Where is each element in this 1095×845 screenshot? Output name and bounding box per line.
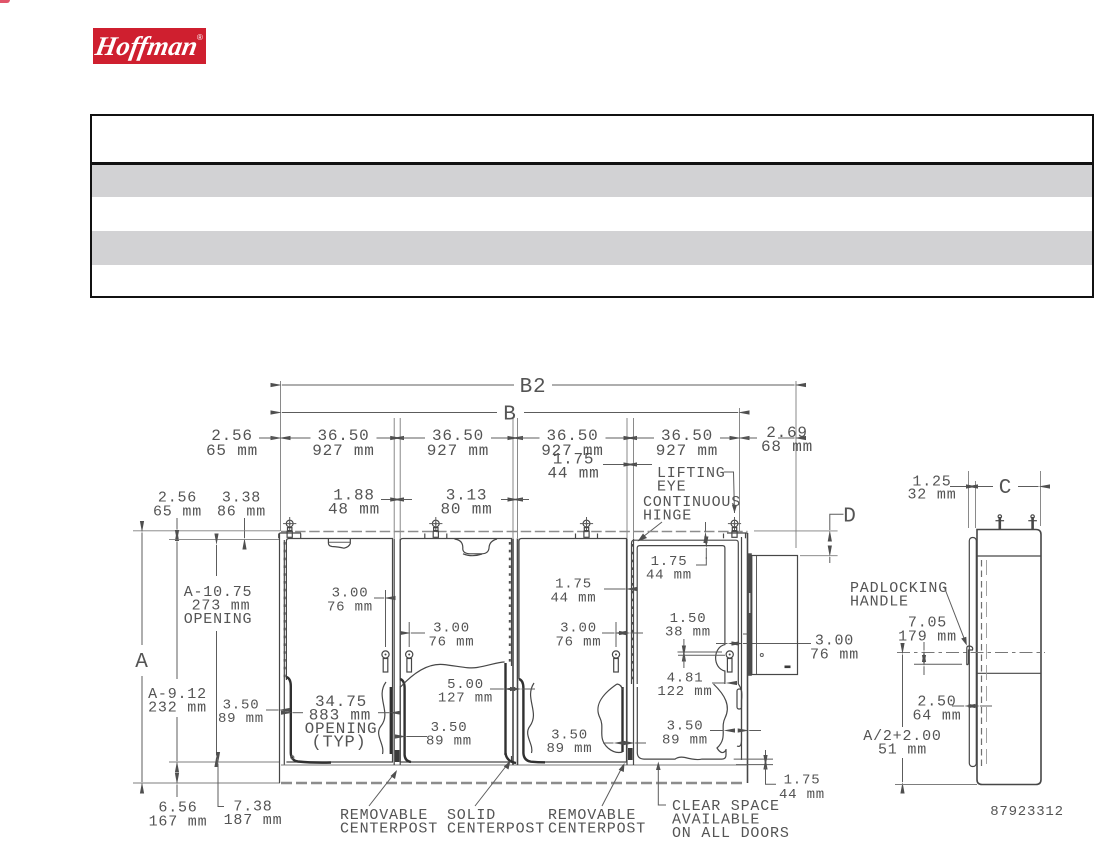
svg-text:44 mm: 44 mm	[550, 591, 596, 607]
door 2 horizontal break (wavy)	[401, 662, 505, 687]
svg-text:232 mm: 232 mm	[148, 700, 207, 717]
door 1 opening break right (wavy)	[379, 682, 386, 754]
door 3 opening break left	[519, 679, 545, 762]
dimension A (overall height)	[141, 546, 143, 645]
door 3 outline	[519, 539, 627, 763]
removable centerpost 1	[393, 539, 395, 766]
svg-text:A: A	[135, 651, 148, 674]
svg-text:(TYP): (TYP)	[311, 734, 366, 753]
door 2 outline	[400, 539, 511, 763]
svg-text:OPENING: OPENING	[184, 611, 253, 628]
enclosure left edge	[279, 533, 281, 783]
svg-text:87923312: 87923312	[990, 804, 1064, 820]
svg-text:CENTERPOST: CENTERPOST	[548, 821, 646, 838]
dimension 1.75 / 44 mm (bottom right)	[734, 758, 773, 760]
door 4 break (wavy blob)	[714, 684, 728, 753]
door handles (4)	[382, 651, 389, 672]
svg-text:D: D	[843, 506, 856, 529]
dimension B2	[282, 384, 514, 386]
page corner mark	[0, 0, 10, 3]
side view hidden hinge line	[981, 560, 983, 768]
svg-text:927 mm: 927 mm	[656, 442, 718, 460]
door 4 opening bottom line with break	[637, 687, 726, 760]
svg-text:76 mm: 76 mm	[428, 635, 474, 651]
enclosure right edge	[747, 533, 749, 783]
svg-text:HINGE: HINGE	[643, 508, 692, 525]
enclosure top edge (dashed)	[281, 531, 748, 533]
door 3 opening break right (wavy blob)	[598, 684, 617, 748]
svg-text:167 mm: 167 mm	[149, 814, 208, 831]
svg-text:68 mm: 68 mm	[761, 438, 813, 456]
svg-text:127 mm: 127 mm	[438, 691, 493, 707]
side view extension lines	[968, 471, 970, 528]
door 1 opening break left	[286, 677, 331, 763]
extension lines from top dimension lines	[280, 381, 282, 531]
lifting eyes (4)	[279, 517, 301, 538]
door 4 outline	[632, 540, 739, 684]
svg-text:48 mm: 48 mm	[328, 501, 380, 519]
spec table	[90, 114, 1094, 298]
svg-text:76 mm: 76 mm	[810, 647, 859, 664]
svg-text:CENTERPOST: CENTERPOST	[447, 821, 545, 838]
svg-text:76 mm: 76 mm	[555, 635, 601, 651]
svg-text:B: B	[503, 404, 516, 427]
svg-text:32 mm: 32 mm	[907, 487, 956, 504]
side view body	[977, 530, 1041, 785]
svg-text:EYE: EYE	[657, 479, 686, 496]
dimensions 36.50 / 927 mm	[282, 437, 311, 439]
svg-text:86 mm: 86 mm	[217, 504, 266, 521]
side view top bolts	[996, 515, 1005, 530]
door 1 top notch	[328, 539, 350, 548]
door 2 hinge dashes	[509, 542, 511, 664]
svg-text:89 mm: 89 mm	[546, 741, 592, 757]
svg-text:76 mm: 76 mm	[327, 600, 373, 616]
svg-text:89 mm: 89 mm	[218, 711, 264, 727]
svg-text:38 mm: 38 mm	[665, 625, 711, 641]
svg-text:179 mm: 179 mm	[898, 629, 957, 646]
enclosure flange bottom line	[281, 764, 747, 766]
svg-text:927 mm: 927 mm	[312, 442, 374, 460]
door 2 opening break left	[400, 679, 411, 762]
dimension A-9.12 / 232 mm	[176, 554, 178, 679]
Hoffman logo	[93, 28, 206, 64]
door 4 hinge dashes	[631, 544, 633, 682]
door 2 opening edge near solid post	[504, 663, 506, 755]
svg-text:65 mm: 65 mm	[153, 504, 202, 521]
dimension A-10.75 / 273 mm OPENING	[216, 557, 218, 576]
svg-text:HANDLE: HANDLE	[850, 594, 909, 611]
svg-text:ON ALL DOORS: ON ALL DOORS	[672, 825, 790, 842]
solid centerpost 2	[512, 539, 514, 766]
dimension B	[282, 412, 497, 414]
door 4 inner panel	[637, 546, 725, 684]
top extension lines left	[133, 530, 280, 532]
door 1 outline	[286, 539, 392, 763]
svg-text:80 mm: 80 mm	[440, 501, 492, 519]
svg-text:51 mm: 51 mm	[878, 742, 927, 759]
removable centerpost 3	[626, 539, 628, 766]
svg-text:44 mm: 44 mm	[547, 465, 599, 483]
svg-text:44 mm: 44 mm	[646, 568, 692, 584]
svg-text:B2: B2	[520, 376, 547, 399]
enclosure bottom edge (dashed)	[281, 782, 745, 785]
centerline	[897, 652, 1045, 654]
svg-text:122 mm: 122 mm	[657, 684, 712, 700]
door 2 top notch	[455, 539, 498, 554]
svg-text:64 mm: 64 mm	[912, 708, 961, 725]
svg-text:65 mm: 65 mm	[206, 442, 258, 460]
svg-text:C: C	[999, 477, 1012, 500]
svg-text:CENTERPOST: CENTERPOST	[340, 821, 438, 838]
bottom extension lines left	[169, 761, 280, 763]
svg-text:187 mm: 187 mm	[224, 812, 283, 829]
door 1 hinge dashes	[284, 542, 286, 678]
side-mounted box	[748, 553, 752, 676]
svg-text:89 mm: 89 mm	[662, 733, 708, 749]
side view padlocking handle	[967, 646, 973, 665]
side view door strip	[969, 538, 976, 767]
svg-text:89 mm: 89 mm	[426, 734, 472, 750]
svg-text:44 mm: 44 mm	[779, 787, 825, 803]
svg-text:927 mm: 927 mm	[427, 442, 489, 460]
